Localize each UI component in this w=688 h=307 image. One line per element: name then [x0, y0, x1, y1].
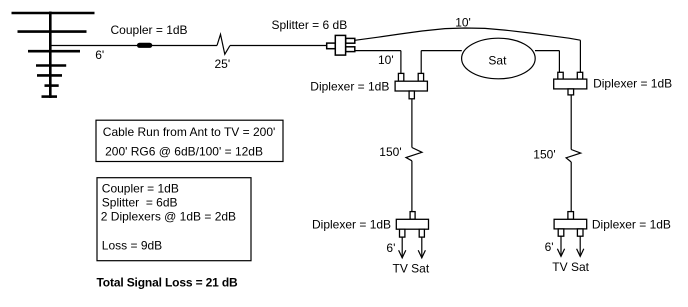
- svg-text:Sat: Sat: [488, 54, 507, 68]
- svg-text:6': 6': [386, 241, 395, 255]
- splitter SP1 body: [335, 35, 345, 55]
- wire: antenna feed to break: [51, 45, 217, 47]
- diplexer D2 (top right) left stub: [558, 72, 563, 79]
- diplexer D2 body: [554, 79, 587, 89]
- antenna element 7: [42, 95, 58, 98]
- svg-text:6': 6': [545, 240, 554, 254]
- svg-text:6': 6': [95, 48, 104, 62]
- antenna element 2: [18, 30, 87, 33]
- svg-text:2 Diplexers @ 1dB = 2dB: 2 Diplexers @ 1dB = 2dB: [101, 210, 236, 224]
- svg-text:Coupler = 1dB: Coupler = 1dB: [102, 181, 179, 195]
- wire: drop to right diplexer left stub: [558, 51, 560, 73]
- svg-text:Coupler = 1dB: Coupler = 1dB: [111, 23, 188, 37]
- antenna element 1: [12, 12, 95, 15]
- antenna element 4: [36, 64, 66, 67]
- diplexer D1 body: [395, 81, 427, 91]
- wire: to Sat ellipse left: [421, 50, 462, 52]
- svg-text:Loss = 9dB: Loss = 9dB: [102, 239, 162, 253]
- wire: break to splitter input: [230, 45, 327, 47]
- diplexer D3 body: [396, 219, 428, 229]
- antenna element 5: [37, 74, 62, 77]
- antenna ANT1 mast: [49, 12, 52, 99]
- svg-text:Diplexer = 1dB: Diplexer = 1dB: [592, 217, 671, 231]
- diplexer D4 bottom left stub: [558, 229, 564, 236]
- wire: left 150 ft run lower: [411, 161, 413, 212]
- diplexer D1 bottom stub: [409, 91, 414, 99]
- antenna element 3: [28, 50, 80, 53]
- diplexer D4 (bottom right) top stub: [568, 212, 574, 220]
- diplexer D2 bottom stub: [568, 89, 574, 95]
- diplexer D1 right stub: [418, 73, 423, 81]
- arrow to Sat (bottom right): [579, 236, 581, 255]
- wire: right 150 ft run lower: [570, 162, 572, 212]
- svg-text:10': 10': [455, 15, 471, 29]
- svg-text:Diplexer = 1dB: Diplexer = 1dB: [310, 80, 389, 94]
- svg-text:150': 150': [379, 145, 401, 159]
- wire: Sat ellipse right to drop: [535, 50, 559, 52]
- arrow to Sat (bottom left): [421, 237, 423, 256]
- svg-text:25': 25': [215, 57, 231, 71]
- svg-text:TV Sat: TV Sat: [552, 260, 589, 274]
- svg-text:Cable Run from Ant to TV = 200: Cable Run from Ant to TV = 200': [103, 125, 275, 139]
- wire: left 150 ft run upper: [411, 99, 413, 148]
- note box: component losses: [97, 178, 251, 261]
- diplexer D1 (top left) left stub: [398, 73, 403, 81]
- svg-text:Diplexer = 1dB: Diplexer = 1dB: [312, 217, 391, 231]
- svg-text:Splitter = 6 dB: Splitter = 6 dB: [272, 18, 348, 32]
- svg-text:200' RG6 @ 6dB/100' = 12dB: 200' RG6 @ 6dB/100' = 12dB: [105, 144, 263, 158]
- svg-text:150': 150': [533, 147, 555, 161]
- wire: splitter bottom output horizontal: [355, 50, 401, 52]
- diplexer D4 bottom right stub: [577, 229, 583, 236]
- cable break symbol (right 150 ft): [566, 150, 581, 163]
- cable break symbol (left 150 ft): [406, 148, 422, 161]
- splitter SP1 output stub bottom: [346, 47, 355, 52]
- wire: arc from splitter top output to right diplexer (10 ft): [355, 28, 581, 40]
- wire: arc end drop to right diplexer right stub: [579, 40, 581, 72]
- svg-text:Diplexer = 1dB: Diplexer = 1dB: [593, 77, 672, 91]
- diplexer D3 bottom right stub: [419, 229, 424, 237]
- wire: right 150 ft run upper: [570, 95, 572, 150]
- satellite node Sat (ellipse): [462, 38, 536, 79]
- svg-text:TV Sat: TV Sat: [393, 261, 430, 275]
- note box: cable run calculation: [96, 120, 283, 161]
- coupler (black blob on wire): [137, 43, 152, 48]
- arrow to TV (bottom left): [401, 237, 403, 256]
- diplexer D2 right stub: [577, 72, 582, 79]
- antenna element 6: [45, 84, 59, 87]
- arrow to TV (bottom right): [560, 236, 562, 255]
- splitter SP1 input stub: [327, 43, 336, 49]
- diplexer D3 (bottom left) top stub: [410, 212, 415, 220]
- svg-text:Total Signal Loss = 21 dB: Total Signal Loss = 21 dB: [97, 275, 239, 289]
- diplexer D4 body: [554, 219, 587, 229]
- diplexer D3 bottom left stub: [400, 229, 405, 237]
- svg-text:Splitter = 6dB: Splitter = 6dB: [102, 195, 178, 209]
- cable break symbol (25 ft run): [217, 34, 230, 54]
- splitter SP1 output stub top: [346, 38, 355, 43]
- wire: drop to left diplexer left stub: [400, 51, 402, 74]
- svg-text:10': 10': [378, 53, 394, 67]
- wire: left diplexer right stub up: [420, 51, 422, 74]
